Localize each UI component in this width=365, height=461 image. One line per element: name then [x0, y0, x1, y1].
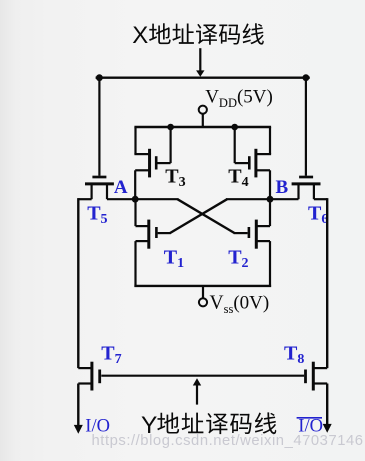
- svg-text:VDD(5V): VDD(5V): [205, 87, 273, 111]
- svg-text:https://blog.csdn.net/weixin_4: https://blog.csdn.net/weixin_47037146: [92, 433, 364, 449]
- wire: right I/O-bar lead with arrow: [323, 384, 332, 433]
- svg-text:T8: T8: [284, 343, 304, 368]
- wire: node A horizontal: [107, 198, 179, 200]
- wire: left bit line column: [77, 198, 79, 368]
- wire: T6 gate stem: [305, 78, 307, 176]
- transistor T7 (column access, left): [78, 362, 99, 391]
- transistor T2 (driver): [249, 199, 270, 287]
- svg-text:B: B: [276, 177, 289, 198]
- power VDD terminal: [199, 106, 207, 127]
- svg-text:X: X: [132, 22, 148, 49]
- Y address decode line title: [141, 412, 276, 439]
- junction: T3 gate on VDD rail: [167, 124, 174, 131]
- wire: left I/O lead with arrow: [74, 384, 83, 434]
- wire: cross-couple A to T2 gate: [177, 199, 234, 233]
- wire: cross-couple B to T1 gate: [170, 199, 227, 233]
- svg-text:T2: T2: [228, 247, 248, 272]
- transistor T3 (load): [134, 127, 170, 199]
- svg-text:T7: T7: [101, 343, 121, 368]
- svg-text:T3: T3: [165, 165, 185, 190]
- label I/O-bar (right): [297, 416, 323, 436]
- transistor T4 (load): [235, 127, 271, 199]
- arrow from Y label up to Y line: [193, 378, 201, 404]
- svg-text:T5: T5: [87, 202, 107, 227]
- arrow from X line label down to word line: [196, 48, 204, 77]
- transistor T5 (access, left): [85, 177, 114, 199]
- wire: VSS rail: [134, 285, 271, 287]
- wire: T2 gate lead: [234, 232, 248, 234]
- wire: T5 source to left column: [78, 198, 91, 200]
- wire: T1 gate lead: [158, 232, 171, 234]
- transistor T6 (access, right): [292, 177, 321, 199]
- junction: T4 gate on VDD rail: [231, 124, 238, 131]
- transistor T8 (column access, right): [306, 362, 328, 391]
- X address decode line title: [132, 22, 264, 49]
- wire: Y word line: [101, 375, 304, 377]
- svg-text:T1: T1: [164, 247, 184, 272]
- wire: T6 drain to right column: [314, 198, 327, 200]
- wire: right bit line column: [326, 198, 328, 368]
- transistor T1 (driver): [136, 199, 157, 287]
- node A junction: [132, 196, 139, 203]
- wire: VDD rail: [134, 126, 271, 128]
- junction: T5 gate on X rail: [96, 74, 103, 81]
- wire: node B horizontal: [226, 198, 299, 200]
- ground VSS terminal: [199, 286, 207, 307]
- wire: X word line rail: [96, 76, 310, 78]
- svg-text:T6: T6: [308, 202, 328, 227]
- svg-text:Vss(0V): Vss(0V): [210, 293, 270, 317]
- svg-text:A: A: [114, 177, 128, 198]
- junction: T6 gate on X rail: [303, 74, 310, 81]
- node B junction: [267, 196, 274, 203]
- wire: T5 gate stem: [98, 78, 100, 176]
- svg-text:T4: T4: [228, 165, 248, 190]
